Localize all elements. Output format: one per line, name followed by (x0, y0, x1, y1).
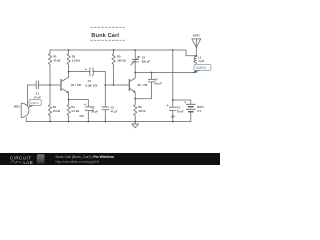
svg-text:OutPut: OutPut (196, 66, 206, 70)
svg-text:6.8 pF: 6.8 pF (154, 82, 162, 86)
svg-text:R3: R3 (72, 55, 76, 59)
svg-text:C6: C6 (154, 77, 158, 81)
svg-text:OutPut: OutPut (30, 101, 39, 105)
svg-text:1.8 kΩ: 1.8 kΩ (72, 59, 80, 63)
svg-text:ANT1: ANT1 (193, 34, 201, 38)
svg-text:9 V: 9 V (197, 109, 201, 113)
svg-text:10 kΩ: 10 kΩ (53, 109, 60, 113)
svg-text:12V: 12V (170, 115, 175, 119)
svg-text:100 kΩ: 100 kΩ (117, 59, 126, 63)
svg-text:3.3 kΩ: 3.3 kΩ (71, 109, 79, 113)
svg-text:βF = 730: βF = 730 (71, 84, 81, 87)
svg-text:47 kΩ: 47 kΩ (53, 59, 60, 63)
svg-text:BAT1: BAT1 (197, 105, 204, 109)
svg-text:R1: R1 (53, 105, 57, 109)
svg-text:0.1μF 12V: 0.1μF 12V (85, 84, 97, 88)
svg-text:R6: R6 (138, 105, 142, 109)
svg-text:Bunk Carl: Bunk Carl (91, 33, 119, 39)
svg-text:R5: R5 (117, 55, 121, 59)
svg-text:MIC1: MIC1 (14, 104, 21, 108)
svg-text:47 μF: 47 μF (111, 110, 118, 114)
svg-text:R2: R2 (53, 55, 57, 59)
svg-text:1 μH: 1 μH (198, 59, 204, 63)
svg-text:C2: C2 (91, 106, 95, 110)
svg-text:C7: C7 (177, 105, 181, 109)
svg-text:βF = 730: βF = 730 (138, 84, 148, 87)
svg-text:47 nF: 47 nF (34, 95, 41, 99)
svg-text:12V: 12V (79, 114, 84, 118)
svg-text:C3: C3 (111, 106, 115, 110)
svg-text:C1: C1 (36, 92, 40, 96)
svg-text:470 Ω: 470 Ω (138, 109, 145, 113)
svg-text:Bunk Carl (Bunk_Carl) | Fm Wir: Bunk Carl (Bunk_Carl) | Fm Wireless (56, 155, 115, 159)
svg-text:C4: C4 (88, 79, 92, 83)
svg-text:20 μF: 20 μF (91, 110, 98, 114)
svg-text:10 nF: 10 nF (177, 109, 184, 113)
svg-text:R4: R4 (71, 105, 75, 109)
svg-text:820 pF: 820 pF (142, 59, 151, 63)
svg-text:http://circuitlab.com/cqq653t: http://circuitlab.com/cqq653t (56, 160, 100, 164)
svg-text:C5: C5 (142, 56, 146, 60)
svg-text:LAB: LAB (23, 160, 33, 165)
